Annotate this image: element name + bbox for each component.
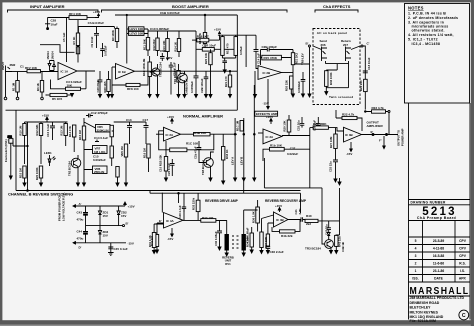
ground R1 [16,97,19,100]
svg-text:C25 20u: C25 20u [296,120,300,131]
svg-text:R33 1K: R33 1K [225,150,229,159]
capacitor C6 [160,53,165,61]
svg-text:4: 4 [415,247,417,251]
svg-text:IC 1B: IC 1B [118,70,127,74]
resistor R11 vertical [146,38,149,51]
capacitor C15e [301,72,306,94]
svg-text:LEV B: LEV B [239,157,243,165]
svg-text:202: 202 [8,135,13,139]
label box EFFECTS AMP [255,111,278,116]
resistor R26 [194,133,211,136]
wire -15V IC2b [267,79,269,109]
svg-text:R21 470: R21 470 [224,76,228,87]
svg-text:R34 10K: R34 10K [245,236,249,247]
svg-text:R15 1M: R15 1M [78,130,82,140]
svg-text:AMPLIFIER: AMPLIFIER [367,124,384,128]
resistor R21e vertical [291,53,294,65]
svg-text:R22 220: R22 220 [359,80,363,91]
resistor row2 R11b [39,166,42,178]
wire pot outs [144,29,148,38]
wire +15V arrow [95,16,99,18]
svg-text:POWER AMP: POWER AMP [401,128,405,146]
footswitch connector [9,139,13,144]
capacitor C42 [327,224,332,233]
transistor TR5 [204,158,214,168]
svg-text:R12 2K2: R12 2K2 [152,39,156,50]
ground TR1 [183,95,186,98]
svg-text:+15V: +15V [42,114,49,118]
wire vertical rail x78 [77,20,79,33]
svg-text:File: 5213A-00M: File: 5213A-00M [410,319,437,323]
marshall logo box [409,295,471,297]
node feedback [388,111,390,113]
svg-text:C2B 100pF: C2B 100pF [262,45,278,49]
svg-text:C14 0.1uF: C14 0.1uF [94,136,108,140]
capacitor C36 [266,246,271,251]
resistor R12s vertical [39,124,42,136]
wire vertical lines trio [235,85,254,178]
transistor TR1b [152,68,160,76]
svg-text:MILTON KEYNES: MILTON KEYNES [410,310,439,314]
transistor TR3 [325,240,334,249]
resistor R40 [305,219,318,222]
diode D2 1N914 [53,61,55,71]
input jack J1 [6,66,13,75]
svg-text:C18 10uF: C18 10uF [367,57,371,70]
wire boost top rail [115,14,237,16]
node footswitch [27,145,28,146]
svg-text:5: 5 [415,239,417,243]
wire bottom rail [6,109,238,111]
svg-text:R16 1K7: R16 1K7 [197,35,209,39]
wire C45 [108,243,113,253]
svg-text:C30 0.68uF: C30 0.68uF [214,231,218,246]
wire ChB tap [78,27,114,34]
resistor VR5b vertical [124,144,127,157]
ground R28 [107,95,110,98]
ground R31 [153,251,156,254]
capacitor C20n [170,159,175,176]
node junction [126,14,127,15]
svg-text:+15V: +15V [93,10,100,14]
capacitor C29 [182,203,186,212]
svg-text:C1R 10uF: C1R 10uF [202,44,216,48]
capacitor C8 vertical [194,31,199,95]
svg-text:NORMAL AMPLIFIER: NORMAL AMPLIFIER [183,113,223,118]
svg-text:207: 207 [343,43,348,47]
svg-text:BOOST AMPLIFIER: BOOST AMPLIFIER [172,4,209,9]
capacitor C16 feedback [261,48,294,58]
resistor R20e vertical [290,76,293,89]
svg-text:IC 3B: IC 3B [345,133,354,137]
wire effects input rail [218,35,256,67]
capacitor C14 [95,140,99,142]
op-amp IC4b [274,212,289,227]
svg-text:C14 1uF: C14 1uF [256,53,260,64]
capacitor C10s [50,122,55,140]
ground VR6 res [116,183,119,186]
potentiometer VR2 level 2 [129,31,145,35]
svg-text:-15V: -15V [166,56,172,60]
potentiometer VR6 [93,166,108,174]
resistor right of VR5 [110,125,113,137]
svg-text:CPV: CPV [459,254,467,258]
svg-text:RF8 100: RF8 100 [127,87,139,91]
svg-text:INPUT AMPLIFIER: INPUT AMPLIFIER [30,4,65,9]
wire ground stub output [338,178,341,185]
resistor R19 horizontal [202,48,214,52]
wire normal amp +15V [171,119,173,124]
node boost out [229,71,230,72]
capacitor C2 [47,18,49,24]
svg-text:R24 180K: R24 180K [313,122,327,126]
svg-text:R11 39K: R11 39K [142,39,146,50]
svg-text:C45 0.1uF: C45 0.1uF [114,247,128,251]
ground C30 [218,247,221,250]
ground R37 [260,251,263,254]
op-amp IC2b [258,66,281,80]
ground secondary [242,253,245,256]
svg-text:CARBON 1K: CARBON 1K [185,78,189,95]
wire F' arrow [383,136,385,149]
resistor R33 feedback [201,219,216,223]
resistor R9 vertical [116,27,118,29]
ground C36 [266,251,269,254]
svg-text:23-5-89: 23-5-89 [433,239,445,243]
svg-text:R20 100K: R20 100K [35,167,39,180]
resistor R22n vertical [240,121,243,132]
op-amp IC1a [58,63,77,80]
svg-text:10uF: 10uF [51,23,58,27]
svg-text:E': E' [159,219,162,223]
svg-text:B': B' [126,222,129,226]
svg-text:R31 1.1K: R31 1.1K [148,235,152,247]
svg-text:25KLIN: 25KLIN [94,170,104,174]
svg-text:C4B 1B: C4B 1B [341,242,345,252]
section bracket ChA EFFECTS [315,10,358,13]
ground C45 [108,253,114,256]
svg-text:R33 100: R33 100 [202,216,214,220]
svg-text:Twin screened: Twin screened [329,95,354,99]
node F junction [386,134,388,136]
svg-text:R7 1K: R7 1K [72,37,76,45]
svg-text:R14 1K: R14 1K [173,42,177,51]
svg-text:LEV2 10K: LEV2 10K [130,32,145,36]
svg-text:Footswitch (FS1): Footswitch (FS1) [4,139,8,162]
resistor RF4 [69,16,87,20]
wire bottom rail D' [73,242,126,244]
ground R27n [222,181,225,184]
ground R21b [229,95,232,98]
svg-text:10K: 10K [67,83,73,87]
wire to opamp [41,71,59,73]
op-amp IC2a [164,127,181,141]
wire pot rail [127,15,129,64]
svg-text:1N914: 1N914 [46,51,50,60]
wire C10 row [148,30,196,32]
capacitor C21 [197,141,202,157]
node E' [372,134,374,136]
ground IC1b [111,85,114,98]
resistor R36 vertical [325,71,328,87]
svg-text:0.0022uF: 0.0022uF [93,158,106,162]
svg-text:2. uF denotes Microfarads: 2. uF denotes Microfarads [408,16,458,20]
svg-text:ChB 0.0047uF: ChB 0.0047uF [160,11,180,15]
ground R43 [335,251,338,254]
ground trio 2 [242,178,245,181]
svg-text:+15V: +15V [214,28,221,32]
svg-text:11-6-86: 11-6-86 [433,262,444,266]
resistor R40f feedback [280,230,296,233]
ground C11e [223,70,226,73]
title column borders [408,103,410,320]
svg-text:R1C 1M: R1C 1M [236,120,240,131]
wire +15V switching rail [25,117,68,122]
capacitor C30 [217,220,222,247]
svg-text:2: 2 [415,262,417,266]
resistor R15e feedback [262,55,282,60]
svg-text:5. IC1,2 - TL072: 5. IC1,2 - TL072 [408,38,438,42]
resistor R37 vertical [260,232,263,248]
svg-text:-15V: -15V [346,152,352,156]
svg-text:R4b 22k: R4b 22k [281,234,293,238]
node B' [309,45,311,47]
svg-text:ChA EFFECTS: ChA EFFECTS [323,4,351,9]
svg-text:All on back panel: All on back panel [317,31,348,35]
svg-text:C13: C13 [126,118,132,122]
svg-text:RF4 10K: RF4 10K [69,12,82,16]
svg-text:CPV: CPV [459,247,467,251]
svg-text:1. P.C.B. IN 44 iss B: 1. P.C.B. IN 44 iss B [408,12,446,16]
wire input [12,71,27,73]
svg-text:B': B' [306,42,309,46]
ground TR2 [77,183,80,186]
svg-text:C42 22u: C42 22u [325,224,329,235]
wire reverb bus [150,191,301,224]
svg-text:R32 220k: R32 220k [192,197,196,210]
wire transformer primary [216,220,227,253]
svg-text:R9 100K: R9 100K [111,30,115,41]
svg-text:C28 20uF: C28 20uF [96,80,100,93]
resistor R1 vertical [17,72,19,81]
svg-text:VR8 LEV: VR8 LEV [301,53,305,65]
wire mid rail B' [86,225,123,227]
capacitor C23 [300,117,305,128]
svg-text:otherwise stated.: otherwise stated. [412,29,445,33]
svg-text:R10 1M: R10 1M [18,125,22,135]
resistor right of VR7 [110,146,113,158]
wire footswitch [11,122,28,191]
svg-text:TR3 BC184: TR3 BC184 [305,247,321,251]
wire send in [313,46,322,50]
svg-text:INPUT: INPUT [1,61,5,70]
svg-text:DENBEIGH ROAD: DENBEIGH ROAD [410,301,440,305]
ground trio 3 [253,178,256,181]
svg-text:+15V: +15V [128,205,135,209]
svg-text:LEV1 10K: LEV1 10K [130,27,145,31]
wire bus left vertical [15,110,17,190]
resistor R18n vertical [164,157,167,172]
svg-text:R20 10K: R20 10K [204,53,208,64]
svg-text:R19 470: R19 470 [226,43,230,54]
svg-text:IC 4B: IC 4B [276,218,285,222]
potentiometer VR1 level 1 [129,27,145,31]
svg-text:I.S.: I.S. [460,269,465,273]
svg-text:C5 1uF: C5 1uF [62,32,66,42]
wire caps rail [112,122,146,144]
svg-text:C9 10nF: C9 10nF [90,36,94,47]
wire IC4b +15V [278,208,280,212]
capacitor C44 electrolytic [83,226,88,243]
zener ZD3 [98,226,101,243]
resistor R13s vertical [64,124,67,136]
ground R36 [325,92,328,95]
ground VR5b [125,183,128,186]
svg-text:R23 4.7k: R23 4.7k [372,106,385,110]
resistor RF8 feedback [126,83,140,86]
svg-text:+15V: +15V [167,115,174,119]
wire long vertical rail right of boost [236,15,238,110]
resistor R14s vertical [73,125,76,137]
svg-text:NOTES: NOTES [408,6,424,11]
wire transformer secondary [243,178,245,253]
resistor R5 [50,93,67,96]
resistor R22o [342,116,357,119]
resistor R24 [313,126,328,129]
svg-text:IC 2B: IC 2B [263,71,272,75]
svg-text:0.022uF: 0.022uF [287,152,298,156]
NOTES text [408,6,458,47]
svg-text:DRAWING NUMBER: DRAWING NUMBER [411,201,447,205]
svg-text:2M2: 2M2 [10,63,16,67]
power rail A' [73,205,125,207]
node trio junctions [234,133,236,135]
svg-text:BLETCHLEY: BLETCHLEY [410,306,432,310]
diode D3 [327,233,330,240]
wire C18 rail [363,46,365,110]
ground input jack [4,97,7,100]
wire feedback routing [40,45,75,53]
svg-text:3: 3 [415,254,417,258]
ground R18 [177,95,180,98]
capacitor C12 [86,114,93,118]
ground R3 [41,97,44,100]
revision table lines [409,236,471,238]
resistor R34 vertical [250,233,253,247]
svg-text:R36 1.8K: R36 1.8K [251,211,255,223]
svg-text:LEV A: LEV A [231,157,235,165]
jack return [346,47,352,62]
svg-text:470u: 470u [77,218,84,222]
svg-text:R15 470K: R15 470K [264,56,278,60]
resistor R16s vertical [147,144,150,158]
resistor R30 feedback [270,147,285,151]
svg-text:C10 0.0056uF: C10 0.0056uF [150,27,169,31]
wire reverb switch feed [264,158,327,244]
svg-text:C37: C37 [290,147,296,151]
svg-text:R21 1K2: R21 1K2 [295,53,299,64]
svg-text:R3 1K: R3 1K [36,83,40,91]
svg-text:D': D' [79,246,82,250]
svg-text:R1b 10K: R1b 10K [270,144,283,148]
transistor TR1 [178,73,188,83]
svg-text:MK1 1DQ ENGLAND: MK1 1DQ ENGLAND [410,315,444,319]
svg-text:C20 0.1uF: C20 0.1uF [167,162,171,176]
svg-text:1: 1 [415,269,417,273]
resistor R15s vertical [82,126,85,140]
wire -15V IC4a [171,228,173,236]
notes box [405,4,470,104]
resistor R38 vertical [266,234,269,246]
ground C2Bb [205,95,208,98]
resistor R32 [196,200,200,211]
potentiometer VR7 [93,146,108,154]
svg-text:R1B 100K.0B: R1B 100K.0B [142,59,146,76]
resistor R6 vertical [76,47,79,54]
svg-text:4. All resistors 1/4 watt,: 4. All resistors 1/4 watt, [408,33,454,37]
resistor R21b vertical far right [229,71,231,75]
diode D1 1N914 [49,61,51,71]
section bracket BOOST AMPLIFIER [102,10,288,13]
capacitor C25 [333,155,338,179]
svg-text:CPV: CPV [459,239,467,243]
ground TR3 [330,251,333,254]
svg-text:R29 10K: R29 10K [283,120,287,131]
ground transformer [225,253,228,256]
svg-text:4-11-88: 4-11-88 [433,247,444,251]
wire effects out [282,128,313,136]
svg-text:0.0056uF: 0.0056uF [190,81,194,93]
resistor R14 vertical [178,31,180,39]
resistor R21a vertical [234,37,238,56]
ground TR5 [209,178,212,181]
svg-text:R10 1M: R10 1M [18,168,22,178]
section bracket INPUT AMPLIFIER [8,10,99,13]
svg-text:C1: C1 [20,65,24,69]
ground R20 [209,95,212,98]
resistor R43 vertical [335,235,338,246]
ground trio 1 [234,178,237,181]
resistor R7 vertical [76,33,79,46]
svg-text:IC 1A: IC 1A [61,70,70,74]
svg-text:C29 4.7uF: C29 4.7uF [178,205,182,219]
resistor R17 vertical [148,62,152,77]
resistor R19e vertical [221,37,225,56]
resistor R35 vertical [256,207,260,223]
svg-text:R36 100K: R36 100K [329,72,333,85]
svg-text:16-5-88: 16-5-88 [433,254,445,258]
svg-text:1N914: 1N914 [50,51,54,60]
resistor R2 horizontal [27,70,41,73]
wire switch rail [230,70,237,72]
potentiometer VR5 [96,125,111,133]
resistor R20 vertical right [210,49,212,52]
svg-text:TR1 BC184: TR1 BC184 [173,69,177,84]
wire +15V arrow ps [124,202,126,206]
resistor R23 top [372,110,386,113]
ground B' line [308,94,311,97]
resistor R27n vertical [222,147,225,161]
capacitor C14e [254,50,259,65]
ground R10b [23,183,26,186]
svg-text:+15V: +15V [275,204,282,208]
svg-text:E': E' [371,130,374,134]
svg-text:15V: 15V [103,214,108,218]
jack send [322,47,328,62]
address block [410,296,465,323]
svg-text:DATE: DATE [434,277,444,281]
svg-text:R28 1K5: R28 1K5 [103,81,107,92]
